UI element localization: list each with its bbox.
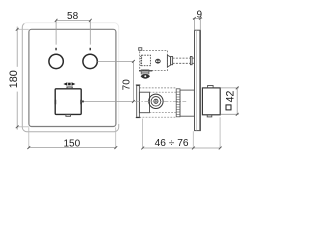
dimension square42 ticks — [236, 87, 239, 116]
valve ring — [155, 59, 161, 64]
dimension 46-76 extension lines — [143, 117, 221, 148]
valve shaft end bars — [190, 57, 192, 65]
dimension 150 line — [29, 147, 116, 149]
screw between bodies — [141, 74, 150, 79]
valve upper body dashed box — [140, 50, 168, 70]
valve cone — [167, 55, 170, 67]
dimension 9 ticks — [193, 17, 202, 20]
housing box — [180, 90, 194, 116]
lower dashed box bottom — [139, 116, 176, 118]
lower flange bottom tick — [136, 117, 141, 119]
svg-text:70: 70 — [122, 79, 133, 91]
knob left index tick — [55, 48, 57, 51]
lower flange top tick — [136, 84, 141, 86]
front plate outer profile — [22, 23, 118, 132]
svg-text:150: 150 — [63, 139, 80, 150]
valve ring slot dots — [156, 60, 158, 62]
dimension 9 line — [193, 18, 202, 30]
dimension 150 extension lines — [29, 127, 116, 148]
svg-text:58: 58 — [67, 11, 79, 22]
svg-text:9: 9 — [197, 9, 203, 20]
dimension 46-76 ticks — [141, 147, 221, 150]
diverter screw center — [154, 99, 158, 103]
threaded column — [176, 89, 180, 117]
front plate inner face — [29, 29, 116, 126]
side button bottom tab — [207, 115, 212, 117]
side button profile — [202, 88, 220, 115]
square button right clip — [80, 100, 82, 105]
dimension 70 line — [132, 61, 134, 101]
dimension 70 ticks — [132, 60, 135, 103]
square button — [55, 89, 81, 115]
svg-text:46 ÷ 76: 46 ÷ 76 — [155, 138, 189, 149]
square button bottom tab — [66, 114, 71, 116]
square button arrow symbol — [63, 82, 75, 86]
dimension 58 ticks — [55, 19, 92, 22]
dimension 58 line — [56, 20, 90, 44]
dimension 180 line — [17, 27, 29, 130]
square button left clip — [54, 100, 56, 105]
diverter circle outer — [149, 94, 163, 108]
square button top tab — [67, 87, 72, 89]
dimension 46-76 line — [143, 147, 221, 149]
valve cartridge comb — [140, 57, 142, 66]
valve hatch block — [141, 70, 149, 74]
lower dashed box top — [139, 87, 176, 89]
knob left — [49, 54, 63, 68]
knob right — [83, 54, 97, 68]
side button top tab — [208, 86, 214, 88]
dimension square42 square symbol — [226, 105, 231, 110]
dimension 70 leader tick — [82, 101, 84, 103]
lower flange — [137, 86, 140, 118]
valve upper body bottom edge — [139, 70, 152, 72]
svg-text:42: 42 — [225, 91, 237, 103]
dimension 180 ticks — [16, 28, 19, 128]
side plate profile — [195, 30, 201, 130]
lower centerline — [135, 100, 186, 102]
svg-text:180: 180 — [8, 70, 20, 88]
lower body — [139, 92, 149, 113]
valve upper cap — [139, 48, 142, 51]
diverter circle inner — [151, 97, 161, 107]
valve shaft dashed — [173, 58, 191, 63]
valve cone base bars — [171, 57, 173, 65]
knob right index tick — [90, 48, 92, 51]
dimension 150 ticks — [27, 146, 117, 149]
dimension 70 leader from square — [82, 101, 135, 103]
dimension 70 leader from knob — [98, 60, 134, 62]
valve cartridge — [142, 55, 151, 65]
dimension square42 extension lines — [221, 88, 239, 114]
